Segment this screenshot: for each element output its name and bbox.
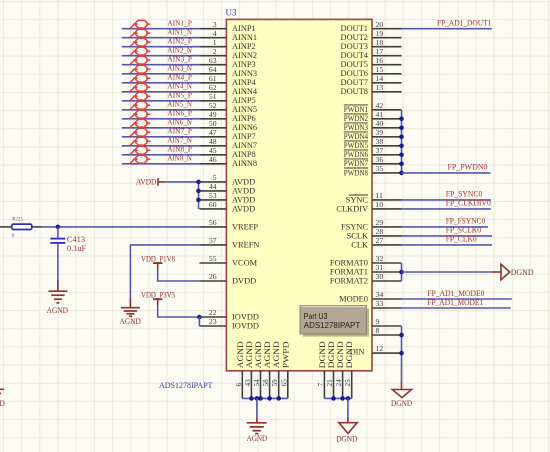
svg-text:AIN2_P: AIN2_P <box>167 37 192 46</box>
svg-text:42: 42 <box>376 101 384 110</box>
svg-text:45: 45 <box>209 146 217 155</box>
svg-text:AGND: AGND <box>0 398 5 408</box>
svg-text:54: 54 <box>253 379 261 387</box>
svg-text:AGND: AGND <box>120 316 141 326</box>
svg-text:61: 61 <box>209 74 217 83</box>
svg-text:PWDN4: PWDN4 <box>344 132 369 141</box>
wire net FP_CLKDIV0 <box>402 208 491 210</box>
svg-text:C413: C413 <box>67 235 85 244</box>
svg-text:49: 49 <box>209 110 217 119</box>
pin 50 (AINN6) <box>199 119 257 132</box>
svg-text:AINN5: AINN5 <box>232 105 257 114</box>
svg-text:17: 17 <box>376 47 384 56</box>
connector symbol AIN3_P <box>130 56 151 64</box>
pin 9 (TEST) <box>372 317 402 326</box>
svg-text:AINN6: AINN6 <box>232 123 257 132</box>
wire net AIN7_P <box>122 136 200 138</box>
pin 13 (DOUT8) <box>341 83 402 96</box>
svg-text:PWDN6: PWDN6 <box>344 150 368 159</box>
pin 27 (CLK) <box>351 236 401 249</box>
svg-text:FSYNC: FSYNC <box>341 222 368 231</box>
svg-text:AINP1: AINP1 <box>232 24 256 33</box>
svg-text:FP_CLK0: FP_CLK0 <box>446 235 477 244</box>
connector symbol AIN8_N <box>130 155 151 163</box>
svg-text:FP_AD1_DOUT1: FP_AD1_DOUT1 <box>437 19 491 28</box>
svg-text:AVDD: AVDD <box>136 177 156 187</box>
svg-text:64: 64 <box>209 65 217 74</box>
svg-text:AVDD: AVDD <box>232 177 255 186</box>
svg-text:U3: U3 <box>226 8 237 18</box>
pin 18 (DOUT3) <box>341 38 402 51</box>
svg-text:AIN4_N: AIN4_N <box>167 82 192 91</box>
svg-text:AINP3: AINP3 <box>232 60 256 69</box>
wire IOVDD link <box>198 317 200 326</box>
svg-text:AINN1: AINN1 <box>232 33 257 42</box>
pin 34 (MODE0) <box>339 290 401 303</box>
junction dots TEST bus <box>399 333 404 356</box>
pin 51 (AINP5) <box>199 92 255 105</box>
junction IOVDD <box>197 315 202 320</box>
svg-text:20: 20 <box>376 20 384 29</box>
svg-text:AINP4: AINP4 <box>232 78 257 87</box>
pin 57 (VREFN) <box>199 236 259 249</box>
wire net FP_FSYNC0 <box>402 226 489 228</box>
svg-text:28: 28 <box>376 227 384 236</box>
pin 39 (PWDN4, active low) <box>344 128 402 141</box>
svg-text:53: 53 <box>209 191 217 200</box>
wire AGND drop <box>256 398 258 417</box>
pin 4 (AINN1) <box>199 29 257 42</box>
pin 2 (AINN2) <box>199 47 257 60</box>
pin 65 (PWPD) bottom <box>280 341 290 398</box>
svg-text:13: 13 <box>376 83 384 92</box>
svg-text:8: 8 <box>376 326 380 335</box>
connector symbol AIN1_P <box>130 20 151 28</box>
connector symbol AIN6_P <box>130 110 151 118</box>
svg-text:12: 12 <box>376 344 384 353</box>
svg-text:4: 4 <box>213 29 217 38</box>
svg-text:27: 27 <box>376 236 384 245</box>
wire net AIN2_P <box>122 46 200 48</box>
svg-text:FP_FSYNC0: FP_FSYNC0 <box>446 217 486 226</box>
svg-text:31: 31 <box>376 263 384 272</box>
pin 29 (FSYNC) <box>341 218 402 231</box>
svg-text:47: 47 <box>209 128 217 137</box>
svg-text:FP_AD1_MODE0: FP_AD1_MODE0 <box>427 289 484 298</box>
svg-text:AIN2_N: AIN2_N <box>167 46 192 55</box>
svg-text:AINN8: AINN8 <box>232 159 257 168</box>
wire net AIN5_N <box>122 109 200 111</box>
wire net AIN4_P <box>122 82 200 84</box>
svg-text:3: 3 <box>213 20 217 29</box>
svg-text:VCOM: VCOM <box>232 258 258 267</box>
svg-text:19: 19 <box>376 29 384 38</box>
pin 3 (AINP1) <box>199 20 255 33</box>
svg-text:36: 36 <box>376 155 384 164</box>
svg-text:MODE0: MODE0 <box>339 294 368 303</box>
pin 60 (AVDD) <box>199 200 255 213</box>
svg-text:AGND: AGND <box>236 341 245 368</box>
wire TEST/DIN bus to DGND <box>401 326 403 381</box>
svg-text:6: 6 <box>235 383 243 387</box>
svg-text:ADS1278IPAPT: ADS1278IPAPT <box>304 320 361 330</box>
ground AGND (left edge, clipped) <box>0 389 4 397</box>
svg-text:IOVDD: IOVDD <box>232 312 259 321</box>
svg-text:32: 32 <box>376 254 384 263</box>
connector symbol AIN5_P <box>130 92 151 100</box>
ground AGND (bottom) <box>247 418 267 434</box>
pin 30 (FORMAT2) <box>330 272 402 285</box>
svg-text:DGND: DGND <box>318 341 327 368</box>
pin 1 (AINP2) <box>199 38 255 51</box>
wire FORMAT bus <box>401 263 403 281</box>
wire net VDD_P3V3 <box>158 306 200 317</box>
wire net AIN5_P <box>122 100 200 102</box>
svg-text:SCLK: SCLK <box>347 231 368 240</box>
power port VDD_P1V8 <box>141 253 175 269</box>
svg-text:18: 18 <box>376 38 384 47</box>
pin 31 (FORMAT1) <box>330 263 402 276</box>
op IC U3 ADS1278IPAPT body <box>226 19 372 370</box>
pin 6 (AGND) bottom <box>235 341 245 398</box>
pin 42 (PWDN1, active low) <box>344 101 402 114</box>
pin 23 (IOVDD) <box>199 317 259 330</box>
wire net AIN1_P <box>122 28 200 30</box>
pin 46 (AINN8) <box>199 155 257 168</box>
connector symbol AIN3_N <box>130 65 151 73</box>
pin 62 (AINN4) <box>199 83 258 96</box>
svg-text:DVDD: DVDD <box>232 276 256 285</box>
svg-text:51: 51 <box>209 92 217 101</box>
svg-text:FP_AD1_MODE1: FP_AD1_MODE1 <box>427 298 483 307</box>
svg-text:65: 65 <box>280 379 288 387</box>
junction dots DGND bus <box>331 396 350 401</box>
connector symbol AIN2_N <box>130 47 151 55</box>
pin 28 (SCLK) <box>347 227 402 240</box>
svg-text:52: 52 <box>209 101 217 110</box>
wire net VDD_P1V8 <box>158 270 200 281</box>
svg-text:PWPD: PWPD <box>281 341 290 368</box>
pin 47 (AINP7) <box>199 128 255 141</box>
svg-text:39: 39 <box>376 128 384 137</box>
svg-text:DOUT2: DOUT2 <box>341 33 368 42</box>
ground AGND (under C413) <box>48 281 67 303</box>
svg-text:2: 2 <box>213 47 217 56</box>
pin 59 (AGND) bottom <box>271 341 281 398</box>
svg-text:VREFP: VREFP <box>232 222 258 231</box>
svg-text:37: 37 <box>376 146 384 155</box>
svg-text:AIN3_P: AIN3_P <box>167 55 192 64</box>
svg-text:AIN8_P: AIN8_P <box>167 145 192 154</box>
power port DGND (right arrow) <box>492 264 510 279</box>
pin 26 (DVDD) <box>199 272 256 285</box>
svg-text:33: 33 <box>376 299 384 308</box>
svg-text:FP_SYNC0: FP_SYNC0 <box>446 190 483 199</box>
svg-text:DGND: DGND <box>336 433 357 443</box>
pin 48 (AINN7) <box>199 137 257 150</box>
svg-text:25: 25 <box>344 379 352 387</box>
svg-text:SYNC: SYNC <box>346 195 369 204</box>
pin 25 (DGND) bottom <box>344 341 354 398</box>
svg-text:57: 57 <box>209 236 217 245</box>
svg-text:DGND: DGND <box>391 398 412 408</box>
svg-text:40: 40 <box>376 119 384 128</box>
svg-text:AIN6_P: AIN6_P <box>167 109 192 118</box>
wire net VREFP <box>42 226 200 228</box>
svg-text:DGND: DGND <box>345 341 354 368</box>
pin 22 (IOVDD) <box>199 308 259 321</box>
pin 17 (DOUT4) <box>341 47 402 60</box>
junction dots PWDN bus <box>399 117 404 176</box>
wire DGND drop <box>347 398 349 417</box>
wire net FP_AD1_DOUT1 <box>402 28 492 30</box>
svg-text:AVDD: AVDD <box>232 195 255 204</box>
pin 49 (AINP6) <box>199 110 255 123</box>
pin 35 (PWDN8, active low) <box>344 164 402 177</box>
svg-text:26: 26 <box>209 272 217 281</box>
pin 43 (AGND) bottom <box>244 341 254 398</box>
svg-text:DOUT5: DOUT5 <box>341 60 368 69</box>
wire C413 bottom <box>57 244 59 281</box>
svg-text:35: 35 <box>376 164 384 173</box>
wire net AIN2_N <box>122 55 200 57</box>
svg-text:AIN3_N: AIN3_N <box>167 64 192 73</box>
pin 64 (AINN3) <box>199 65 257 78</box>
pin 37 (PWDN6, active low) <box>344 146 402 159</box>
wire net DGND (FORMAT) <box>402 271 493 273</box>
resistor R223 <box>0 218 42 240</box>
wire net VREFN <box>130 245 199 299</box>
svg-text:AIN1_N: AIN1_N <box>167 28 192 37</box>
pin 36 (PWDN7, active low) <box>344 155 402 168</box>
ground AGND (VREFN) <box>121 299 140 317</box>
svg-text:15: 15 <box>376 65 384 74</box>
svg-text:AIN6_N: AIN6_N <box>167 118 192 127</box>
svg-text:58: 58 <box>262 379 270 387</box>
svg-text:16: 16 <box>376 56 384 65</box>
svg-text:FORMAT2: FORMAT2 <box>330 276 368 285</box>
wire DGND bottom bus <box>324 397 351 399</box>
svg-text:IOVDD: IOVDD <box>232 321 259 330</box>
svg-text:PWDN8: PWDN8 <box>344 168 368 177</box>
svg-text:R223: R223 <box>12 218 23 223</box>
connector symbol AIN4_N <box>130 83 151 91</box>
pin 24 (DGND) bottom <box>335 341 345 398</box>
svg-text:AINN4: AINN4 <box>232 87 258 96</box>
svg-text:PWDN1: PWDN1 <box>344 105 368 114</box>
connector symbol AIN2_P <box>130 38 151 46</box>
wire net AIN8_P <box>122 154 200 156</box>
svg-text:PWDN5: PWDN5 <box>344 141 368 150</box>
power port AVDD <box>136 177 165 187</box>
connector symbol AIN5_N <box>130 101 151 109</box>
svg-text:AINP6: AINP6 <box>232 114 256 123</box>
pin 14 (DOUT7) <box>341 74 402 87</box>
power port DGND (right column) <box>392 381 411 398</box>
svg-text:AGND: AGND <box>245 341 254 368</box>
wire net FP_AD1_MODE1 <box>402 307 511 309</box>
wire net AIN1_N <box>122 37 200 39</box>
svg-text:43: 43 <box>244 379 252 387</box>
svg-text:44: 44 <box>209 182 217 191</box>
svg-text:AIN1_P: AIN1_P <box>167 19 192 28</box>
pin 32 (FORMAT0) <box>330 254 402 267</box>
svg-text:AIN7_N: AIN7_N <box>167 136 192 145</box>
svg-text:AINP5: AINP5 <box>232 96 256 105</box>
pin 53 (AVDD) <box>199 191 255 204</box>
wire net AIN6_P <box>122 118 200 120</box>
svg-text:AGND: AGND <box>247 433 268 443</box>
wire net AVDD <box>165 181 198 183</box>
svg-text:AGND: AGND <box>254 341 263 368</box>
wire net FP_SCLK0 <box>402 235 493 237</box>
svg-text:11: 11 <box>376 191 384 200</box>
svg-text:24: 24 <box>335 379 343 387</box>
pin 63 (AINP3) <box>199 56 255 69</box>
pin 38 (PWDN5, active low) <box>344 137 402 150</box>
connector symbol AIN1_N <box>130 29 151 37</box>
svg-text:AIN5_P: AIN5_P <box>167 91 192 100</box>
junction dots AVDD bus <box>196 180 201 203</box>
svg-text:5: 5 <box>213 173 217 182</box>
power port VDD_P3V3 <box>141 290 175 306</box>
svg-text:29: 29 <box>376 218 384 227</box>
svg-text:34: 34 <box>376 290 384 299</box>
svg-text:AINN7: AINN7 <box>232 141 257 150</box>
svg-text:46: 46 <box>209 155 217 164</box>
pin 11 (SYNC) <box>346 191 402 204</box>
pin 54 (AGND) bottom <box>253 341 263 398</box>
pin 55 (VCOM) <box>199 254 257 267</box>
svg-text:DOUT7: DOUT7 <box>341 78 368 87</box>
pin 8 (TEST) <box>372 326 402 335</box>
pin 41 (PWDN2, active low) <box>344 110 402 123</box>
svg-text:AINN2: AINN2 <box>232 51 257 60</box>
svg-text:23: 23 <box>209 317 217 326</box>
svg-text:21: 21 <box>326 379 334 387</box>
svg-text:DGND: DGND <box>327 341 336 368</box>
wire net AIN6_N <box>122 127 200 129</box>
pin 7 (DGND) bottom <box>317 341 327 398</box>
connector symbol AIN4_P <box>130 74 151 82</box>
svg-text:9: 9 <box>376 317 380 326</box>
junction FORMAT1 <box>399 270 404 275</box>
pin 56 (VREFP) <box>199 218 258 231</box>
svg-text:55: 55 <box>209 254 217 263</box>
capacitor C413 0.1uF <box>50 235 86 253</box>
svg-text:60: 60 <box>209 200 217 209</box>
svg-text:VDD_P3V3: VDD_P3V3 <box>141 290 175 300</box>
svg-text:30: 30 <box>376 272 384 281</box>
svg-text:22: 22 <box>209 308 217 317</box>
wire net FP_PWDN0 <box>402 172 491 174</box>
connector symbol AIN6_N <box>130 119 151 127</box>
pin 44 (AVDD) <box>199 182 255 195</box>
svg-text:14: 14 <box>376 74 384 83</box>
svg-text:PWDN3: PWDN3 <box>344 123 368 132</box>
pin 5 (AVDD) <box>199 173 255 186</box>
pin 58 (AGND) bottom <box>262 341 272 398</box>
svg-text:AGND: AGND <box>47 305 68 315</box>
svg-text:DGND: DGND <box>336 341 345 368</box>
svg-text:CLKDIV: CLKDIV <box>336 204 368 213</box>
tooltip Part U3 ADS1278IPAPT <box>300 306 369 337</box>
svg-text:AIN8_N: AIN8_N <box>167 154 192 163</box>
svg-text:ADS1278IPAPT: ADS1278IPAPT <box>159 380 213 390</box>
svg-text:62: 62 <box>209 83 217 92</box>
svg-text:AINP8: AINP8 <box>232 150 256 159</box>
pin 52 (AINN5) <box>199 101 257 114</box>
junction dots AGND bus <box>249 396 281 401</box>
svg-text:50: 50 <box>209 119 217 128</box>
svg-text:DOUT1: DOUT1 <box>341 24 368 33</box>
svg-text:59: 59 <box>271 379 279 387</box>
svg-text:FORMAT1: FORMAT1 <box>330 267 368 276</box>
pin 19 (DOUT2) <box>341 29 402 42</box>
svg-text:FP_SCLK0: FP_SCLK0 <box>446 226 481 235</box>
svg-text:VDD_P1V8: VDD_P1V8 <box>141 253 175 263</box>
svg-text:AVDD: AVDD <box>232 186 255 195</box>
svg-text:AINP7: AINP7 <box>232 132 256 141</box>
svg-text:AINP2: AINP2 <box>232 42 256 51</box>
svg-text:PWDN2: PWDN2 <box>344 114 368 123</box>
wire net FP_AD1_MODE0 <box>402 298 512 300</box>
svg-text:56: 56 <box>209 218 217 227</box>
wire net FP_CLK0 <box>402 244 493 246</box>
svg-text:AVDD: AVDD <box>232 204 255 213</box>
wire net AIN3_P <box>122 64 200 66</box>
svg-text:VREFN: VREFN <box>232 240 259 249</box>
junction VREFP/C413 <box>56 225 61 230</box>
svg-text:7: 7 <box>317 383 325 387</box>
svg-text:10: 10 <box>376 200 384 209</box>
svg-text:FP_PWDN0: FP_PWDN0 <box>448 163 488 172</box>
svg-text:AINN3: AINN3 <box>232 69 257 78</box>
svg-text:DOUT4: DOUT4 <box>341 51 369 60</box>
svg-text:DGND: DGND <box>511 267 534 277</box>
pin 12 (DIN) <box>350 344 402 357</box>
wire AGND bottom bus <box>242 397 287 399</box>
svg-text:FP_CLKDIV0: FP_CLKDIV0 <box>446 199 491 208</box>
pin 21 (DGND) bottom <box>326 341 336 398</box>
pin 20 (DOUT1) <box>341 20 402 33</box>
wire net AIN7_N <box>122 145 200 147</box>
power port DGND (bottom) <box>339 417 357 434</box>
wire C413 top <box>57 227 59 238</box>
wire AVDD vertical bus <box>198 182 200 209</box>
svg-text:AIN4_P: AIN4_P <box>167 73 192 82</box>
pin 10 (CLKDIV) <box>336 200 401 213</box>
pin 33 (MODE1) <box>339 299 401 312</box>
connector symbol AIN7_P <box>130 128 151 136</box>
svg-text:63: 63 <box>209 56 217 65</box>
svg-text:CLK: CLK <box>351 240 368 249</box>
svg-text:0.1uF: 0.1uF <box>67 244 87 253</box>
pin 61 (AINP4) <box>199 74 256 87</box>
svg-text:48: 48 <box>209 137 217 146</box>
svg-text:DOUT8: DOUT8 <box>341 87 368 96</box>
svg-text:PWDN7: PWDN7 <box>344 159 368 168</box>
wire PWDN bus <box>401 110 403 173</box>
wire net AIN4_N <box>122 91 200 93</box>
svg-text:38: 38 <box>376 137 384 146</box>
svg-text:AIN5_N: AIN5_N <box>167 100 192 109</box>
svg-text:DOUT6: DOUT6 <box>341 69 368 78</box>
svg-text:AIN7_P: AIN7_P <box>167 127 192 136</box>
connector symbol AIN8_P <box>130 146 151 154</box>
pin 45 (AINP8) <box>199 146 255 159</box>
wire net FP_SYNC0 <box>402 199 491 201</box>
